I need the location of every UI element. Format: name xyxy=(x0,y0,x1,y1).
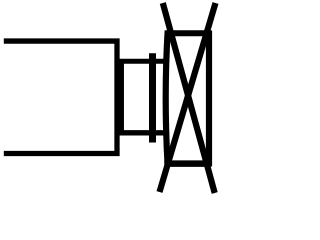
coupling flange top edge xyxy=(119,59,165,64)
gearbox right side xyxy=(206,31,212,167)
coupling flange left edge xyxy=(119,59,124,135)
gearbox diagonal NE-SW xyxy=(160,3,216,192)
motor body M1 (open-left rectangle) xyxy=(4,41,117,153)
gearbox top edge xyxy=(165,30,211,36)
gearbox diagonal NW-SE xyxy=(163,3,215,193)
gearbox left side (slightly bowed) xyxy=(166,31,168,167)
coupling flange bottom edge xyxy=(119,130,165,135)
shaft bearing bar xyxy=(149,53,156,142)
gearbox bottom edge xyxy=(164,160,210,167)
